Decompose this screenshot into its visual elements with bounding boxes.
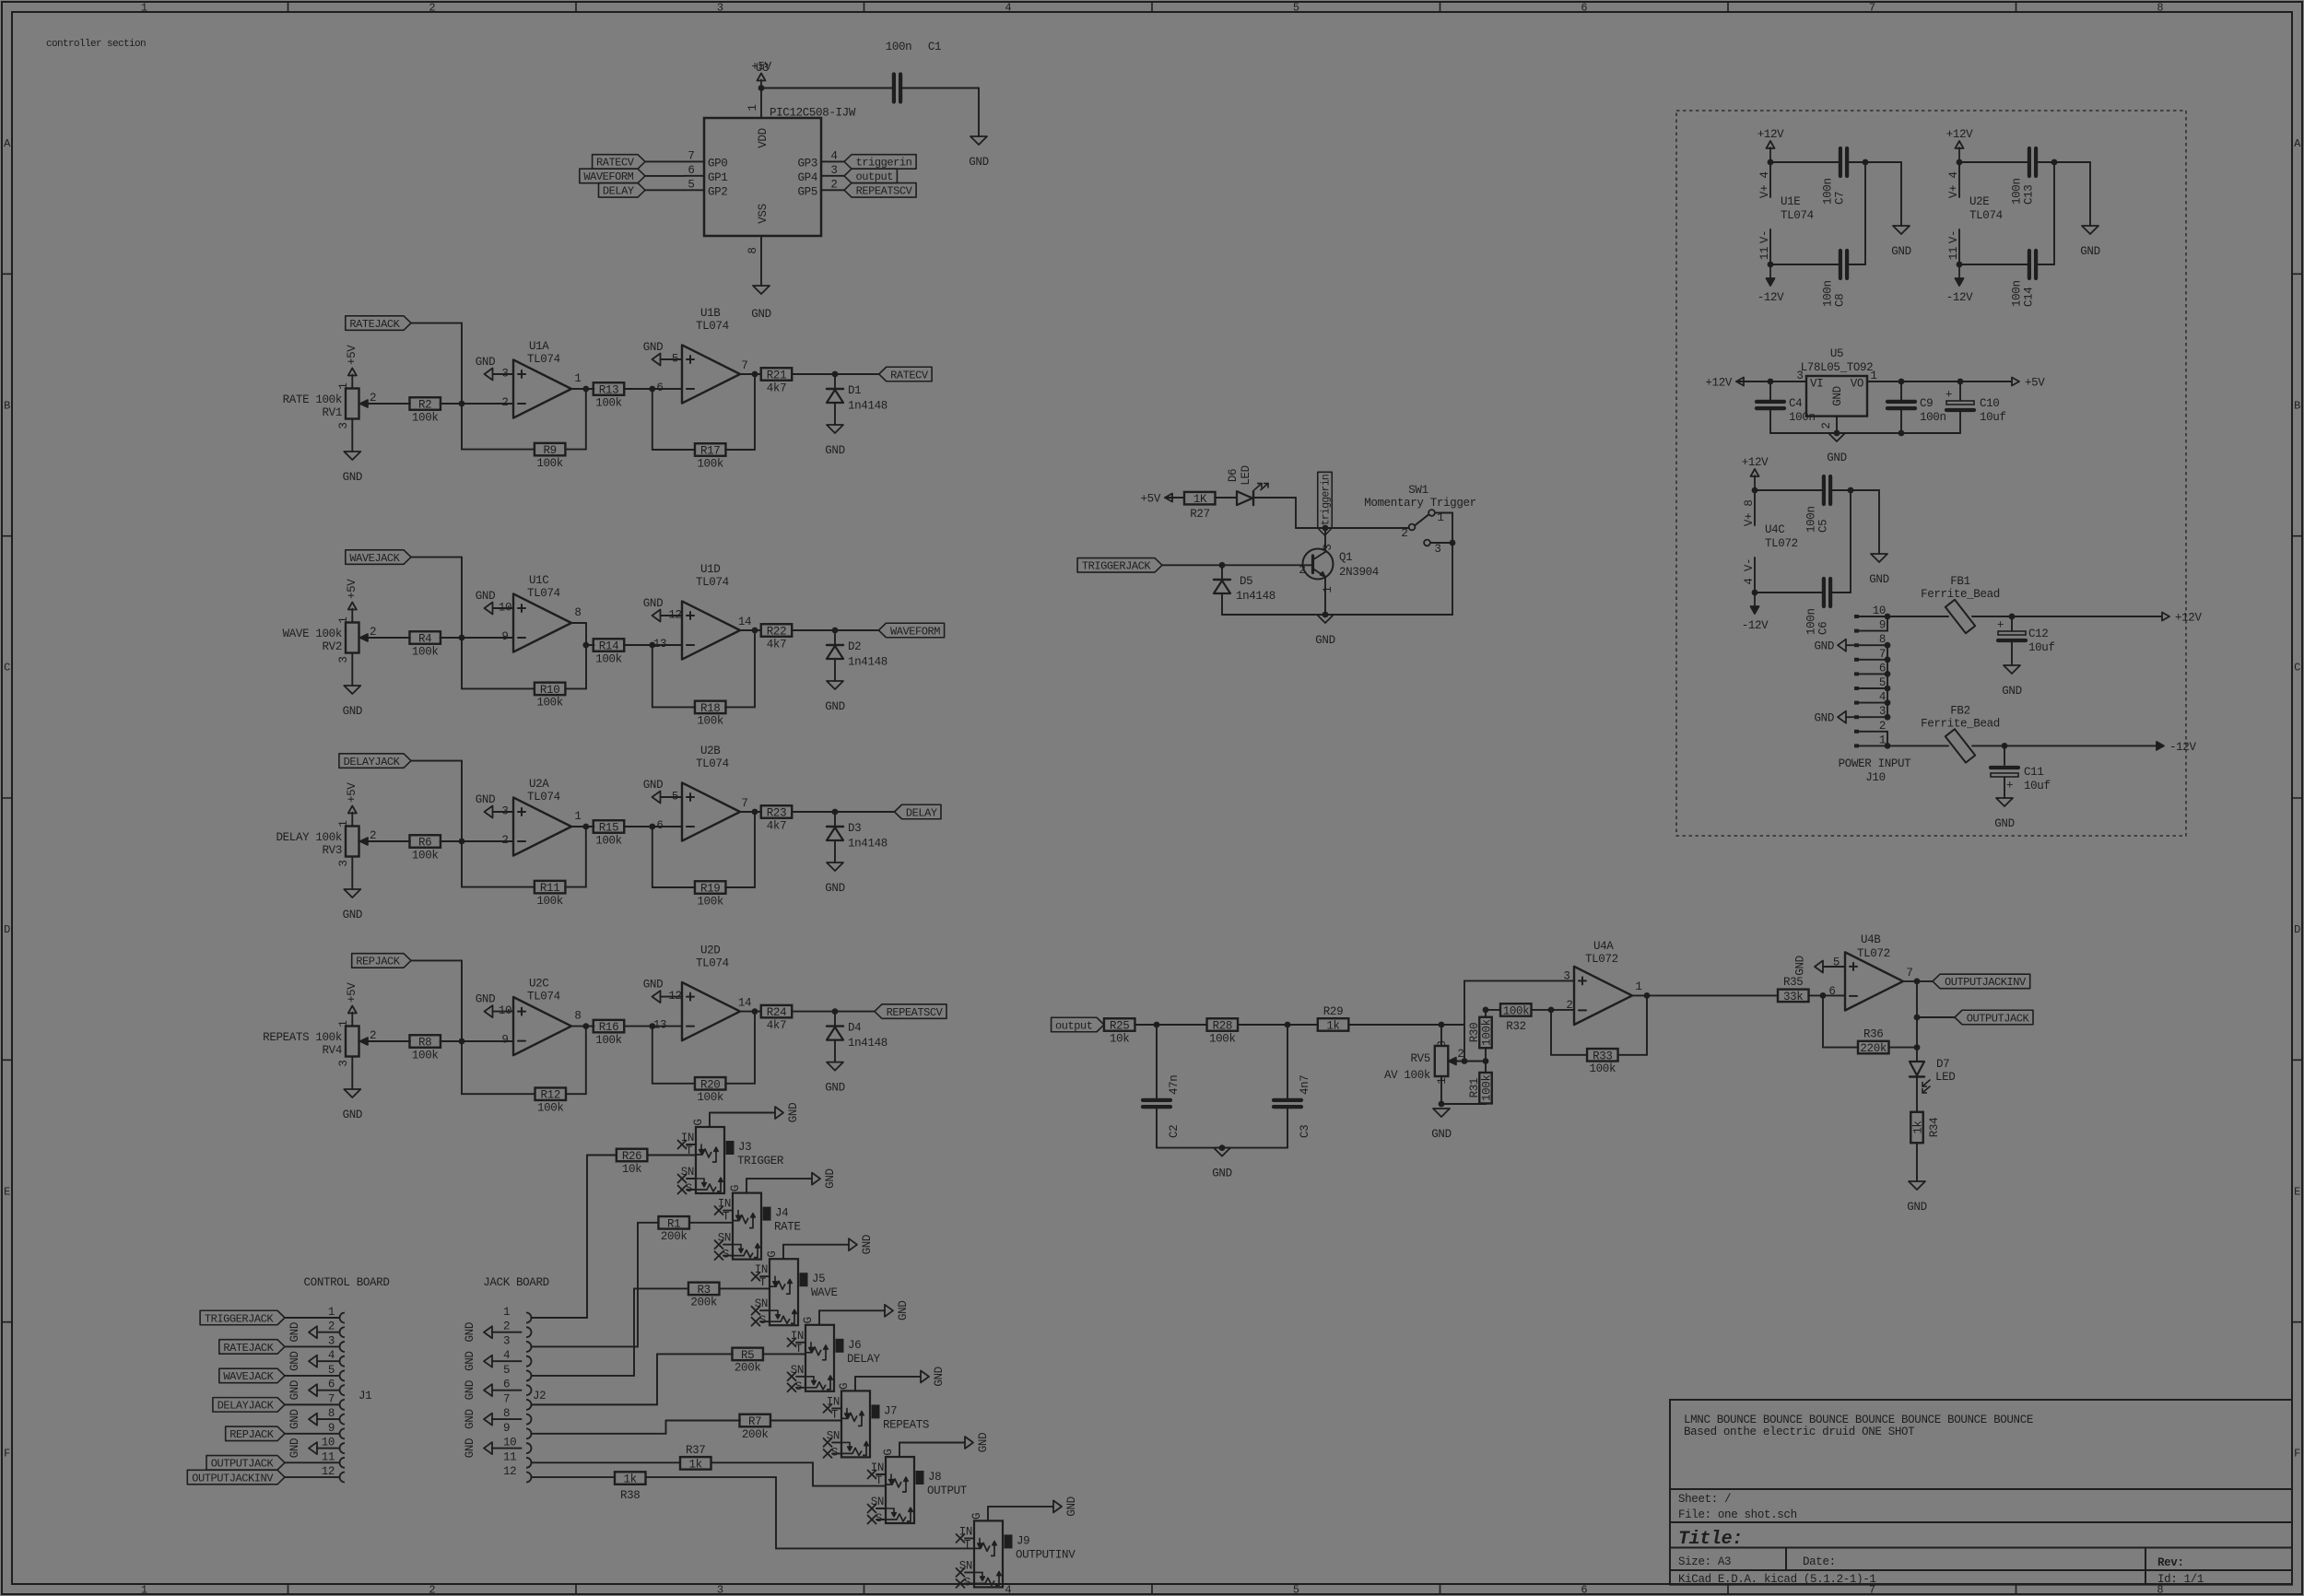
svg-text:GND: GND bbox=[643, 597, 663, 610]
ground (D1) bbox=[825, 425, 844, 457]
wire U1E gnd drop bbox=[1865, 162, 1901, 226]
resistor R16 bbox=[594, 1020, 682, 1047]
svg-text:GND: GND bbox=[288, 1409, 301, 1428]
svg-text:100k: 100k bbox=[1481, 1074, 1494, 1101]
wire U1B output bbox=[740, 359, 761, 377]
power -12V arrow (FB2) bbox=[2157, 741, 2196, 754]
svg-text:KiCad E.D.A. kicad (5.1.2-1)-: KiCad E.D.A. kicad (5.1.2-1)-1 bbox=[1678, 1573, 1876, 1586]
wire U1C output bbox=[571, 606, 594, 648]
svg-text:R27: R27 bbox=[1190, 508, 1209, 521]
svg-text:C3: C3 bbox=[1299, 1125, 1311, 1138]
svg-text:G: G bbox=[838, 1383, 851, 1390]
wire J2.1 to R26 bbox=[532, 1156, 617, 1319]
svg-text:GND: GND bbox=[969, 156, 988, 169]
svg-text:+5V: +5V bbox=[346, 579, 359, 599]
jack J5 WAVE bbox=[752, 1245, 850, 1328]
resistor R37 1k bbox=[532, 1444, 711, 1472]
svg-text:GP0: GP0 bbox=[708, 157, 727, 170]
svg-text:R14: R14 bbox=[599, 640, 618, 653]
op-amp power pins U1E TL074 bbox=[1758, 162, 1814, 264]
svg-text:V+: V+ bbox=[1947, 185, 1960, 198]
svg-text:R19: R19 bbox=[700, 883, 720, 896]
svg-text:200k: 200k bbox=[690, 1297, 717, 1309]
wire RV5 wiper riser bbox=[1464, 980, 1574, 1061]
svg-text:GND: GND bbox=[751, 308, 770, 321]
svg-text:REPEATS 100k: REPEATS 100k bbox=[263, 1031, 342, 1044]
svg-text:GP3: GP3 bbox=[798, 157, 817, 170]
power +5V (R27) bbox=[1141, 493, 1172, 506]
svg-text:100k: 100k bbox=[536, 457, 563, 470]
op-amp U1D bbox=[653, 563, 740, 660]
svg-text:10: 10 bbox=[322, 1437, 335, 1449]
svg-text:output: output bbox=[1055, 1019, 1093, 1032]
svg-text:10uf: 10uf bbox=[2024, 780, 2051, 792]
label RATECV (row 1) bbox=[879, 367, 932, 381]
svg-text:D2: D2 bbox=[848, 640, 861, 653]
capacitor C11 10uf bbox=[1991, 745, 2051, 798]
svg-text:R13: R13 bbox=[599, 384, 618, 397]
label TRIGGERJACK (J1 pin 1) bbox=[200, 1310, 285, 1325]
label REPEATSCV (U3) bbox=[844, 183, 916, 198]
svg-text:R16: R16 bbox=[599, 1021, 618, 1034]
svg-text:6: 6 bbox=[503, 1379, 510, 1391]
ground arrow (J6) bbox=[885, 1301, 910, 1320]
svg-text:9: 9 bbox=[503, 1422, 510, 1435]
svg-text:3: 3 bbox=[1322, 544, 1334, 550]
svg-text:8: 8 bbox=[574, 1010, 581, 1023]
ground arrow (J2 pin 6) bbox=[464, 1380, 492, 1400]
svg-text:DELAY 100k: DELAY 100k bbox=[276, 831, 342, 844]
svg-text:+5V: +5V bbox=[346, 345, 359, 365]
svg-text:1n4148: 1n4148 bbox=[848, 838, 888, 851]
potentiometer RV4 REPEATS 100k bbox=[263, 1020, 378, 1066]
svg-text:GP1: GP1 bbox=[708, 171, 727, 184]
ground (Q1) bbox=[1315, 615, 1334, 647]
wire U1D output bbox=[738, 616, 761, 633]
ground (D4) bbox=[825, 1062, 844, 1095]
svg-text:100k: 100k bbox=[412, 1049, 439, 1062]
svg-text:E: E bbox=[2294, 1185, 2300, 1198]
svg-text:12: 12 bbox=[503, 1465, 516, 1478]
ground arrow (J2 pin 8) bbox=[464, 1409, 492, 1428]
svg-text:GP5: GP5 bbox=[798, 185, 817, 198]
svg-text:3: 3 bbox=[328, 1334, 335, 1347]
svg-text:R6: R6 bbox=[418, 837, 431, 850]
svg-text:GND: GND bbox=[1994, 817, 2014, 830]
svg-text:GND: GND bbox=[1907, 1201, 1926, 1214]
wire U4B output bbox=[1903, 967, 1933, 984]
resistor R7 200k bbox=[739, 1414, 841, 1441]
svg-text:T: T bbox=[723, 1211, 730, 1224]
resistor R3 200k bbox=[688, 1283, 770, 1309]
svg-text:R31: R31 bbox=[1468, 1078, 1481, 1097]
svg-text:5: 5 bbox=[503, 1364, 510, 1377]
wire filter ground rail bbox=[1157, 1144, 1287, 1151]
resistor R6 bbox=[378, 835, 513, 862]
svg-text:C8: C8 bbox=[1834, 294, 1847, 307]
resistor R1 200k bbox=[658, 1216, 733, 1243]
label OUTPUTJACKINV (U4B) bbox=[1933, 974, 2030, 989]
svg-text:33k: 33k bbox=[1783, 991, 1803, 1003]
capacitor C1 bbox=[886, 41, 979, 136]
ground arrow (J3) bbox=[775, 1103, 800, 1122]
power +12V (U2E) bbox=[1946, 128, 1973, 165]
svg-text:13: 13 bbox=[653, 1019, 666, 1032]
svg-text:WAVE: WAVE bbox=[811, 1286, 838, 1299]
resistor R27 1K bbox=[1165, 492, 1216, 521]
jack J4 RATE bbox=[715, 1179, 813, 1262]
svg-text:11: 11 bbox=[503, 1450, 516, 1463]
diode D3 1n4148 bbox=[827, 812, 888, 863]
wire U1A output bbox=[571, 372, 594, 392]
svg-text:9: 9 bbox=[1879, 619, 1886, 632]
svg-text:C10: C10 bbox=[1980, 397, 1999, 410]
svg-text:U3: U3 bbox=[756, 62, 769, 75]
svg-text:B: B bbox=[4, 399, 10, 412]
svg-text:C1: C1 bbox=[928, 41, 941, 53]
connector J10 POWER INPUT bbox=[1839, 604, 1912, 784]
svg-text:5: 5 bbox=[1293, 2, 1299, 15]
svg-text:G: G bbox=[882, 1449, 895, 1455]
ground arrow (J10 pin3) bbox=[1815, 711, 1854, 725]
svg-text:VDD: VDD bbox=[757, 128, 770, 147]
ground (U5) bbox=[1827, 433, 1846, 464]
svg-text:LED: LED bbox=[1935, 1071, 1955, 1084]
svg-text:10k: 10k bbox=[1110, 1032, 1129, 1045]
svg-text:R9: R9 bbox=[543, 444, 556, 457]
LED D6 bbox=[1227, 465, 1268, 505]
jack J9 OUTPUTINV bbox=[957, 1507, 1076, 1590]
jack J7 REPEATS bbox=[824, 1377, 930, 1460]
svg-text:100k: 100k bbox=[412, 645, 439, 658]
svg-text:+5V: +5V bbox=[1141, 493, 1161, 506]
power +5V (RV3) bbox=[346, 782, 359, 821]
resistor R29 1k bbox=[1318, 1005, 1464, 1033]
svg-text:WAVEFORM: WAVEFORM bbox=[583, 170, 633, 183]
svg-text:Q1: Q1 bbox=[1339, 551, 1352, 564]
svg-text:E: E bbox=[4, 1185, 10, 1198]
svg-text:GND: GND bbox=[1315, 634, 1334, 647]
svg-text:R33: R33 bbox=[1593, 1050, 1612, 1062]
wire pot RV1 to ground bbox=[351, 419, 353, 452]
svg-text:100n: 100n bbox=[1805, 506, 1818, 533]
svg-text:R8: R8 bbox=[418, 1037, 431, 1050]
svg-text:100n: 100n bbox=[886, 41, 912, 53]
svg-text:100k: 100k bbox=[697, 457, 723, 470]
resistor R28 100k bbox=[1207, 1018, 1318, 1045]
ground (U3 VSS) bbox=[751, 286, 770, 321]
resistor R32 100k bbox=[1483, 1003, 1574, 1033]
resistor R26 10k bbox=[617, 1149, 696, 1176]
svg-text:C4: C4 bbox=[1789, 397, 1802, 410]
op-amp U1C bbox=[499, 574, 571, 652]
svg-text:GND: GND bbox=[1815, 640, 1834, 653]
svg-text:1n4148: 1n4148 bbox=[848, 400, 888, 413]
resistor R17 bbox=[652, 374, 755, 470]
svg-text:2: 2 bbox=[501, 834, 508, 847]
wire pot RV3 to ground bbox=[351, 857, 353, 890]
svg-text:RATEJACK: RATEJACK bbox=[223, 1342, 274, 1355]
svg-text:C13: C13 bbox=[2023, 185, 2036, 205]
svg-text:R35: R35 bbox=[1783, 976, 1803, 989]
svg-text:1k: 1k bbox=[1912, 1121, 1925, 1133]
svg-text:GND: GND bbox=[824, 1168, 837, 1188]
resistor R8 bbox=[378, 1035, 513, 1062]
ground arrow (J4) bbox=[812, 1168, 837, 1188]
label output (filter) bbox=[1052, 1017, 1104, 1032]
svg-text:R29: R29 bbox=[1323, 1005, 1343, 1018]
svg-text:7: 7 bbox=[688, 149, 694, 162]
svg-text:10uf: 10uf bbox=[1980, 411, 2006, 424]
resistor R11 bbox=[462, 827, 586, 908]
svg-text:2: 2 bbox=[1457, 1048, 1464, 1061]
svg-text:3: 3 bbox=[337, 422, 350, 428]
ground (C1) bbox=[969, 136, 988, 169]
svg-text:D: D bbox=[4, 923, 10, 936]
svg-text:+12V: +12V bbox=[2175, 612, 2202, 625]
svg-text:9: 9 bbox=[501, 630, 508, 643]
svg-text:14: 14 bbox=[738, 616, 751, 628]
svg-text:R1: R1 bbox=[667, 1217, 680, 1230]
capacitor C12 10uf bbox=[1997, 616, 2055, 665]
svg-text:R26: R26 bbox=[622, 1150, 641, 1163]
label WAVEFORM (U3) bbox=[580, 169, 684, 183]
svg-text:F: F bbox=[4, 1448, 10, 1461]
svg-text:U5: U5 bbox=[1830, 347, 1843, 360]
svg-text:1: 1 bbox=[337, 1020, 350, 1027]
svg-text:100k: 100k bbox=[412, 849, 439, 862]
power -12V (U2E) bbox=[1946, 264, 1973, 304]
svg-text:GND: GND bbox=[825, 700, 844, 713]
svg-text:DELAY: DELAY bbox=[847, 1353, 881, 1366]
svg-text:200k: 200k bbox=[742, 1428, 769, 1441]
diode D1 1n4148 bbox=[827, 374, 888, 425]
ground arrow (J2 pin 2) bbox=[464, 1322, 492, 1342]
svg-text:OUTPUT: OUTPUT bbox=[927, 1485, 968, 1497]
svg-text:1: 1 bbox=[1322, 586, 1334, 593]
svg-text:1n4148: 1n4148 bbox=[848, 1037, 888, 1050]
power +5V (RV2) bbox=[346, 579, 359, 617]
ground (U1E) bbox=[1891, 226, 1910, 258]
svg-text:OUTPUTINV: OUTPUTINV bbox=[1016, 1548, 1076, 1561]
svg-text:1: 1 bbox=[574, 372, 581, 385]
ferrite bead FB1 bbox=[1887, 575, 2162, 633]
svg-text:WAVEFORM: WAVEFORM bbox=[890, 625, 940, 638]
svg-text:J4: J4 bbox=[775, 1207, 788, 1220]
svg-text:GND: GND bbox=[476, 590, 495, 603]
svg-text:VSS: VSS bbox=[757, 204, 770, 223]
op-amp U2A bbox=[501, 778, 571, 856]
svg-text:GND: GND bbox=[787, 1103, 800, 1122]
wire pot RV4 to ground bbox=[351, 1057, 353, 1090]
resistor R24 bbox=[761, 1005, 875, 1032]
ground (RV3) bbox=[343, 889, 362, 921]
ground arrow (J10 pin8) bbox=[1815, 640, 1854, 653]
ground (C11) bbox=[1994, 798, 2014, 830]
svg-text:R7: R7 bbox=[748, 1415, 761, 1428]
resistor R36 220k (U4B feedback) bbox=[1823, 995, 1917, 1055]
svg-text:GND: GND bbox=[464, 1351, 476, 1370]
svg-text:D: D bbox=[2294, 923, 2300, 936]
svg-text:GND: GND bbox=[476, 993, 495, 1006]
svg-text:+5V: +5V bbox=[346, 982, 359, 1003]
ground arrow (U2D +) bbox=[643, 979, 682, 1003]
jack J6 DELAY bbox=[788, 1310, 886, 1393]
svg-text:A: A bbox=[2294, 137, 2301, 150]
svg-text:1: 1 bbox=[141, 2, 147, 15]
op-amp U2B bbox=[656, 745, 740, 841]
ground arrow (U1B +) bbox=[643, 341, 682, 366]
text JACK BOARD bbox=[483, 1276, 549, 1289]
potentiometer RV5 AV 100k bbox=[1384, 1025, 1488, 1107]
wire J2.5 to R3 bbox=[532, 1288, 689, 1376]
svg-text:GND: GND bbox=[977, 1433, 990, 1452]
svg-text:100k: 100k bbox=[537, 1101, 564, 1114]
svg-text:RV2: RV2 bbox=[323, 640, 342, 653]
svg-text:D1: D1 bbox=[848, 384, 861, 397]
label TRIGGERJACK (Q1) bbox=[1077, 558, 1302, 573]
svg-text:RATEJACK: RATEJACK bbox=[349, 318, 400, 331]
svg-text:TRIGGERJACK: TRIGGERJACK bbox=[1082, 560, 1152, 573]
LED D7 bbox=[1910, 1048, 1955, 1112]
svg-text:C7: C7 bbox=[1834, 192, 1847, 205]
svg-text:7: 7 bbox=[503, 1392, 510, 1405]
svg-text:C2: C2 bbox=[1168, 1125, 1181, 1138]
ground (R34) bbox=[1907, 1181, 1926, 1214]
ground arrow (J7) bbox=[921, 1367, 946, 1386]
svg-text:7: 7 bbox=[328, 1392, 335, 1405]
ground (RV4) bbox=[343, 1089, 362, 1121]
svg-text:3: 3 bbox=[1796, 370, 1803, 382]
svg-text:R5: R5 bbox=[741, 1349, 754, 1362]
ground arrow (J1 pin 8) bbox=[288, 1409, 317, 1428]
svg-text:4k7: 4k7 bbox=[767, 381, 786, 394]
text CONTROL BOARD bbox=[304, 1276, 390, 1289]
label DELAYJACK (J1 pin 7) bbox=[213, 1398, 285, 1413]
svg-text:GND: GND bbox=[1815, 712, 1834, 725]
svg-text:100n: 100n bbox=[1789, 411, 1816, 424]
capacitor C3 4n7 bbox=[1274, 1025, 1311, 1148]
svg-text:100n: 100n bbox=[2011, 178, 2024, 205]
svg-text:R30: R30 bbox=[1468, 1023, 1481, 1042]
svg-text:J2: J2 bbox=[533, 1390, 546, 1402]
svg-text:2: 2 bbox=[370, 829, 376, 842]
svg-text:6: 6 bbox=[656, 819, 663, 832]
svg-text:J5: J5 bbox=[812, 1273, 825, 1285]
label DELAY (U3) bbox=[599, 183, 685, 198]
svg-text:U2A: U2A bbox=[529, 778, 549, 791]
svg-text:7: 7 bbox=[1906, 967, 1912, 980]
svg-text:LED: LED bbox=[1240, 465, 1252, 485]
label output (U3) bbox=[844, 169, 897, 183]
ground (U4C) bbox=[1869, 554, 1888, 586]
svg-text:GND: GND bbox=[476, 793, 495, 806]
svg-text:U2D: U2D bbox=[700, 945, 720, 957]
resistor R2 bbox=[378, 397, 513, 424]
transistor Q1 2N3904 bbox=[1299, 528, 1379, 615]
svg-text:RATECV: RATECV bbox=[890, 369, 929, 381]
svg-text:U1E: U1E bbox=[1781, 195, 1800, 208]
svg-text:F: F bbox=[2294, 1448, 2300, 1461]
svg-text:PIC12C508-IJW: PIC12C508-IJW bbox=[770, 107, 856, 120]
svg-text:GND: GND bbox=[643, 341, 663, 354]
svg-text:+12V: +12V bbox=[1757, 128, 1784, 141]
svg-text:output: output bbox=[855, 170, 893, 183]
svg-text:GND: GND bbox=[897, 1301, 910, 1320]
svg-text:2: 2 bbox=[370, 392, 376, 405]
svg-text:REPJACK: REPJACK bbox=[356, 956, 401, 968]
diode D5 1n4148 bbox=[1214, 565, 1275, 615]
svg-text:GND: GND bbox=[1065, 1496, 1078, 1516]
svg-text:R10: R10 bbox=[540, 684, 559, 697]
resistor R22 bbox=[761, 624, 879, 651]
resistor R13 bbox=[594, 382, 682, 409]
svg-text:J3: J3 bbox=[738, 1141, 751, 1154]
svg-text:REPJACK: REPJACK bbox=[229, 1428, 275, 1441]
svg-text:GND: GND bbox=[643, 779, 663, 792]
svg-text:U1C: U1C bbox=[529, 574, 548, 587]
svg-text:GND: GND bbox=[476, 356, 495, 369]
svg-text:5: 5 bbox=[688, 178, 694, 191]
svg-text:TL074: TL074 bbox=[696, 957, 729, 970]
svg-text:2: 2 bbox=[1820, 422, 1833, 428]
svg-text:1: 1 bbox=[1870, 370, 1876, 382]
svg-text:R22: R22 bbox=[767, 626, 786, 639]
svg-text:G: G bbox=[729, 1185, 742, 1191]
svg-text:100k: 100k bbox=[1503, 1005, 1530, 1018]
label REPEATSCV (row 4) bbox=[875, 1004, 946, 1019]
svg-text:3: 3 bbox=[717, 2, 723, 15]
label OUTPUTJACK (J1 pin 11) bbox=[206, 1456, 285, 1471]
svg-text:1: 1 bbox=[503, 1306, 510, 1319]
svg-text:DELAYJACK: DELAYJACK bbox=[344, 756, 401, 769]
svg-text:AV 100k: AV 100k bbox=[1384, 1069, 1430, 1082]
svg-text:RATE: RATE bbox=[774, 1221, 801, 1234]
svg-text:TL074: TL074 bbox=[527, 353, 560, 366]
ground (RV1) bbox=[343, 452, 362, 484]
svg-text:C: C bbox=[2294, 662, 2300, 675]
capacitor C9 100n bbox=[1887, 381, 1946, 433]
svg-text:3: 3 bbox=[1434, 543, 1440, 556]
capacitor C13 100n bbox=[1959, 148, 2057, 205]
svg-text:R20: R20 bbox=[700, 1078, 720, 1091]
svg-text:RATECV: RATECV bbox=[596, 157, 635, 170]
svg-text:U4A: U4A bbox=[1593, 940, 1614, 953]
ground arrow (U2C +) bbox=[476, 993, 513, 1018]
svg-text:+: + bbox=[1945, 389, 1952, 402]
label WAVEFORM (row 2) bbox=[878, 623, 944, 638]
svg-text:GND: GND bbox=[933, 1367, 946, 1386]
svg-text:D7: D7 bbox=[1936, 1058, 1949, 1071]
svg-text:U1B: U1B bbox=[700, 307, 721, 320]
svg-text:11: 11 bbox=[322, 1450, 335, 1463]
ground (filter) bbox=[1212, 1148, 1231, 1180]
svg-text:2: 2 bbox=[1566, 999, 1572, 1012]
resistor R33 100k (U4A feedback) bbox=[1551, 995, 1647, 1075]
svg-text:+: + bbox=[2006, 780, 2013, 792]
svg-text:1: 1 bbox=[746, 104, 759, 111]
wire U5 out bbox=[1867, 379, 2012, 385]
svg-text:R18: R18 bbox=[700, 702, 720, 715]
jack J3 TRIGGER bbox=[678, 1113, 784, 1196]
op-amp power pins U4C TL072 bbox=[1743, 490, 1798, 593]
svg-text:Rev:: Rev: bbox=[2157, 1556, 2184, 1569]
svg-text:100k: 100k bbox=[595, 1034, 622, 1047]
svg-text:+12V: +12V bbox=[1946, 128, 1973, 141]
label RATECV (U3) bbox=[593, 155, 684, 170]
resistor R20 bbox=[652, 1012, 755, 1104]
svg-text:-12V: -12V bbox=[2169, 741, 2196, 754]
